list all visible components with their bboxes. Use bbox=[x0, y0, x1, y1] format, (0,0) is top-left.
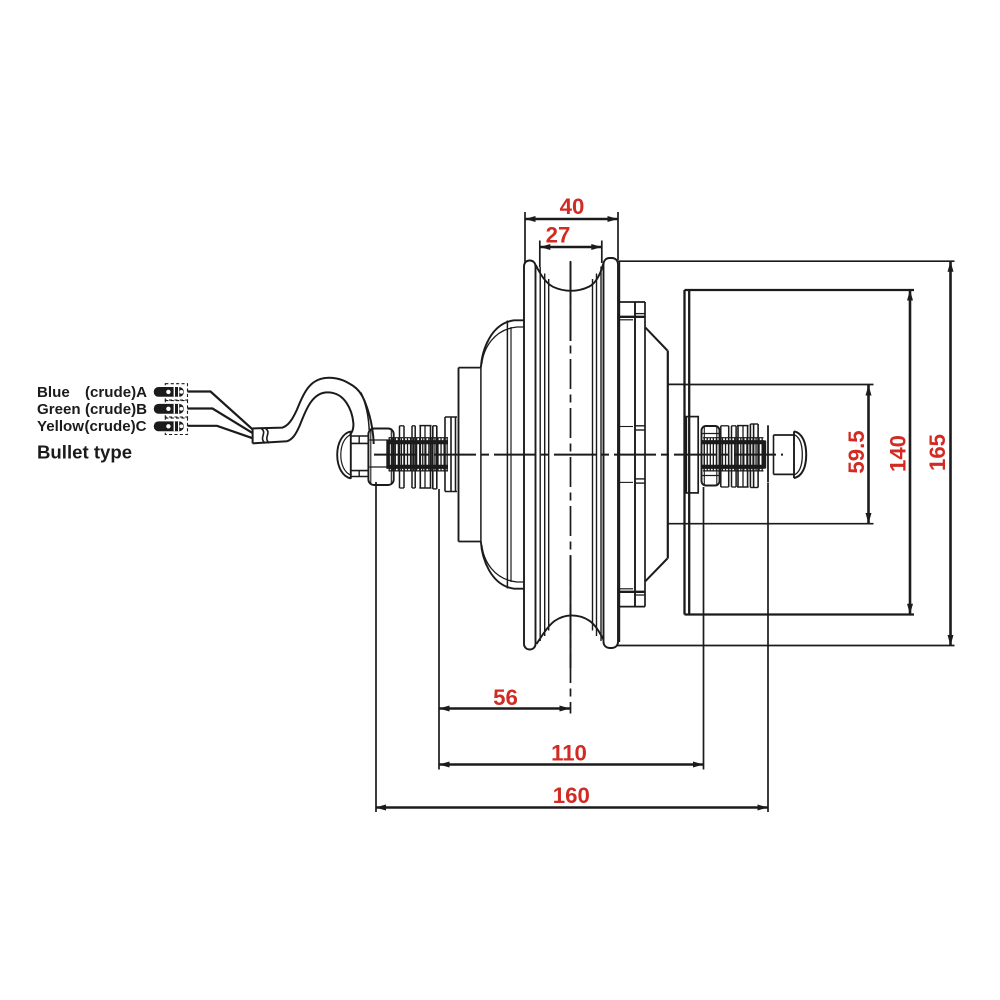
svg-text:27: 27 bbox=[546, 223, 571, 248]
svg-text:Green: Green bbox=[37, 401, 81, 418]
svg-text:Blue: Blue bbox=[37, 384, 70, 401]
svg-text:140: 140 bbox=[886, 435, 911, 472]
svg-text:Yellow: Yellow bbox=[37, 418, 84, 435]
svg-text:Bullet type: Bullet type bbox=[37, 442, 132, 463]
svg-text:(crude)A: (crude)A bbox=[85, 384, 147, 401]
svg-text:(crude)C: (crude)C bbox=[85, 418, 147, 435]
svg-text:110: 110 bbox=[551, 740, 587, 765]
svg-text:40: 40 bbox=[560, 194, 585, 219]
svg-text:165: 165 bbox=[925, 434, 950, 471]
svg-text:160: 160 bbox=[553, 783, 590, 808]
svg-text:59.5: 59.5 bbox=[844, 430, 869, 473]
svg-text:56: 56 bbox=[493, 685, 518, 710]
svg-text:(crude)B: (crude)B bbox=[85, 401, 147, 418]
